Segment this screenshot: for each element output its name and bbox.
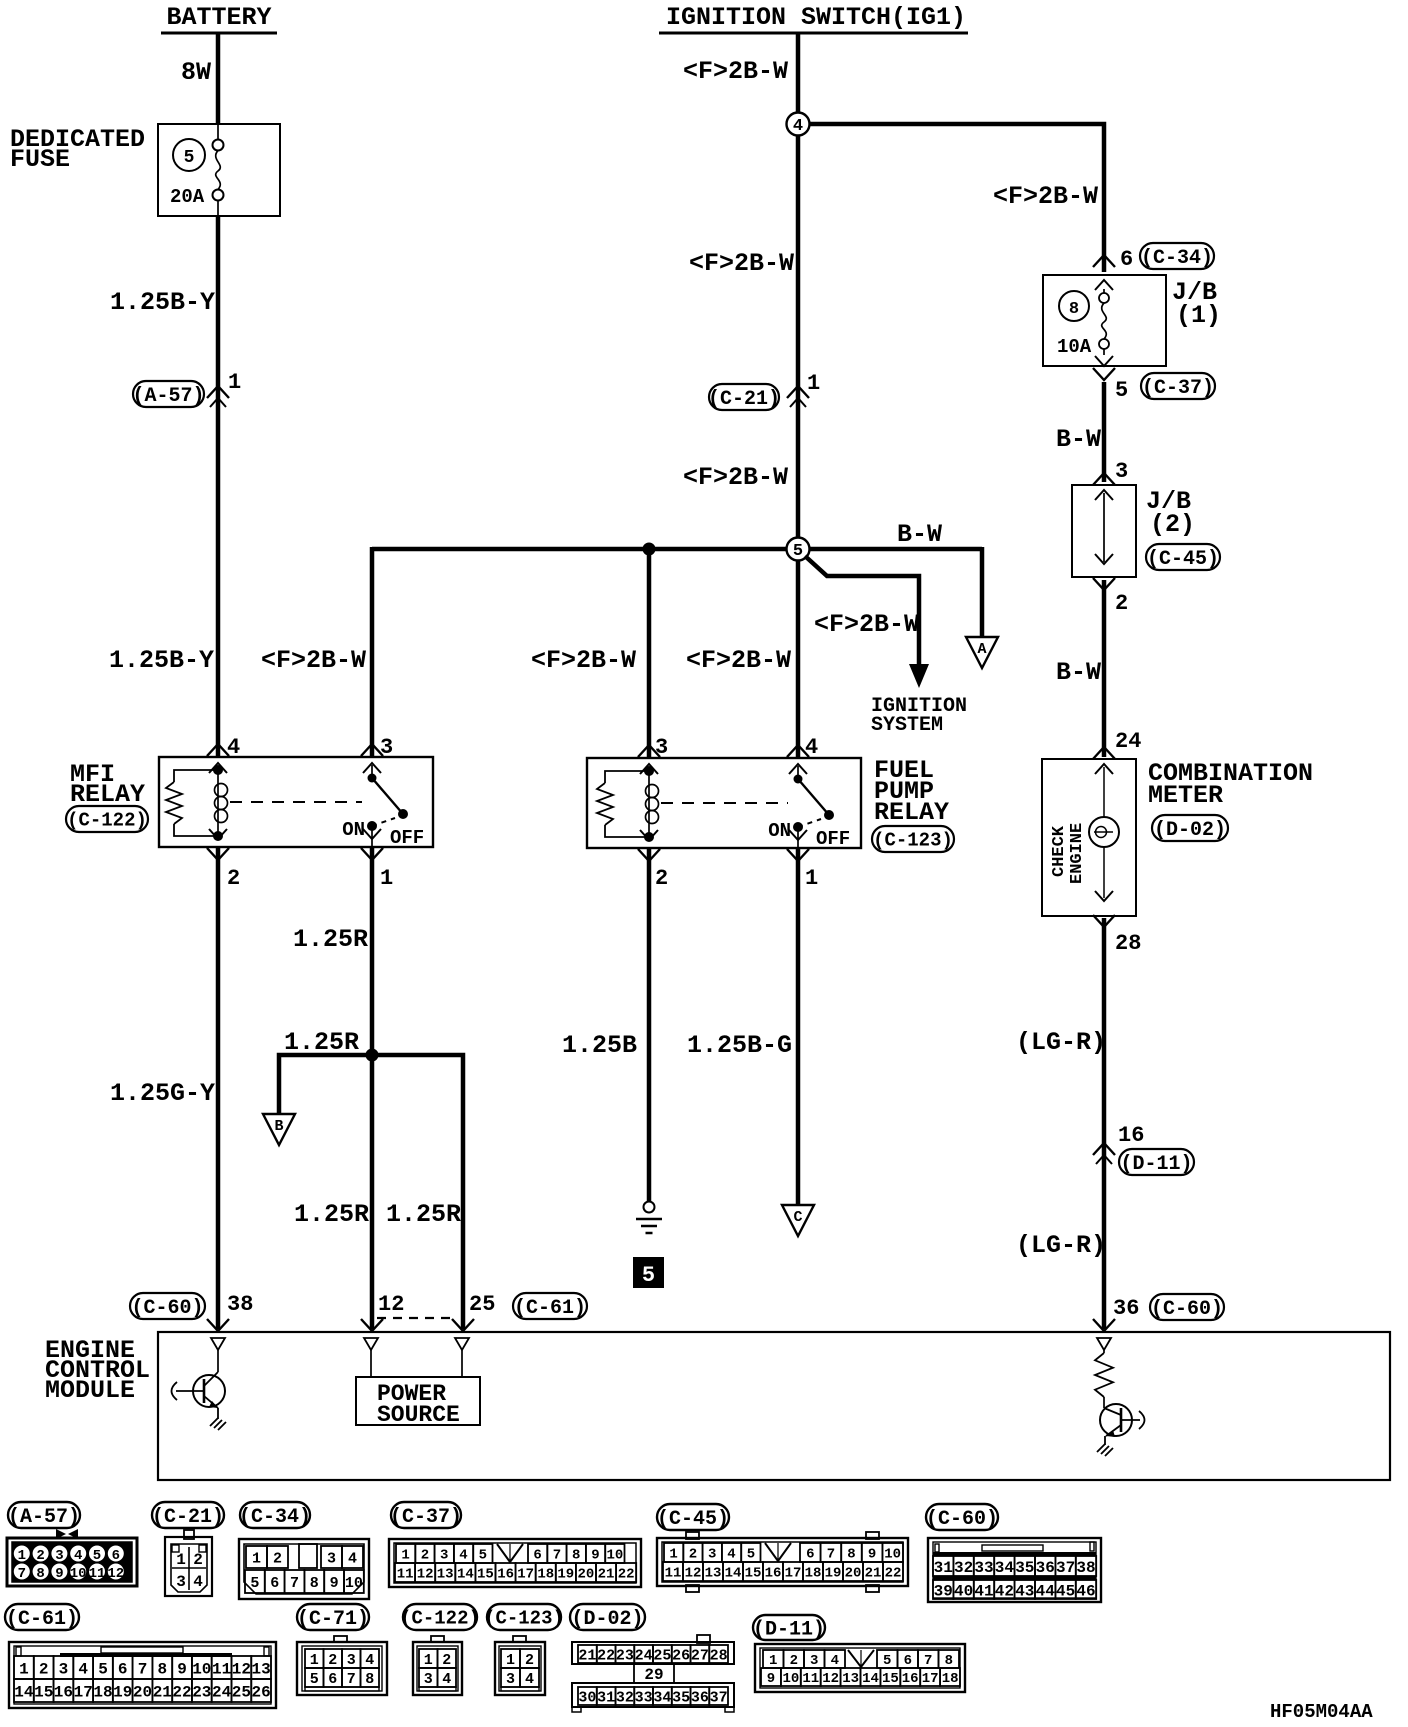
connector C-61 pinout [9,1642,276,1708]
junction to fuel pump relay coil [643,543,656,556]
svg-text:3: 3 [380,735,393,760]
svg-text:3: 3 [59,1660,69,1678]
svg-text:6: 6 [533,1548,541,1564]
wire bus right end down to triangle A [980,547,985,637]
svg-text:5: 5 [184,148,195,168]
svg-text:3: 3 [810,1653,818,1669]
svg-text:<F>2B-W: <F>2B-W [683,57,788,86]
svg-text:METER: METER [1148,781,1223,810]
svg-text:8: 8 [310,1575,319,1592]
fuse number circle 5 [173,139,205,171]
fuse 5 20A box [158,124,280,216]
svg-text:29: 29 [644,1666,663,1684]
svg-text:32: 32 [954,1559,973,1577]
svg-text:1: 1 [769,1653,777,1669]
svg-text:1: 1 [424,1652,433,1669]
connector C-34 capsule [1140,243,1214,269]
connector D-11 label [753,1615,825,1640]
connector D-02 pinout [697,1635,710,1643]
svg-text:22: 22 [172,1683,191,1701]
svg-text:(C-123): (C-123) [484,1607,564,1629]
svg-text:42: 42 [995,1582,1014,1600]
svg-text:24: 24 [1115,729,1141,754]
svg-text:5: 5 [642,1263,655,1288]
svg-text:2: 2 [39,1660,49,1678]
svg-text:43: 43 [1015,1582,1034,1600]
svg-text:5: 5 [310,1671,319,1688]
connector A-57 in-line [133,381,204,407]
connector D-02 capsule [1152,815,1228,841]
svg-text:23: 23 [192,1683,211,1701]
svg-text:(C-61): (C-61) [514,1297,586,1320]
connector C-60 label [926,1504,998,1530]
relay fuel-pump C-123 armature dashed link [661,802,788,804]
svg-text:6: 6 [1120,247,1133,272]
svg-text:18: 18 [537,1567,554,1583]
svg-text:12: 12 [378,1292,404,1317]
svg-text:1: 1 [176,1551,186,1569]
ECM resistor R-right [1103,1350,1105,1353]
connector C-122 capsule [66,806,148,832]
connector C-122 label [403,1604,477,1630]
svg-text:B-W: B-W [1056,425,1101,454]
ground at Q-left [210,1418,226,1430]
svg-text:25: 25 [232,1683,251,1701]
svg-text:31: 31 [597,1689,615,1706]
svg-text:8: 8 [1069,300,1079,319]
svg-text:SYSTEM: SYSTEM [871,714,943,737]
connector A-57 pinout [56,1529,66,1539]
svg-text:3: 3 [176,1573,186,1591]
svg-text:OFF: OFF [816,828,850,850]
node 4 [787,113,810,136]
svg-text:38: 38 [227,1292,253,1317]
connector D-02 label [570,1604,645,1630]
connector C-21 in-line [709,384,779,410]
relay fuel-pump C-123 box [587,758,861,848]
svg-text:7: 7 [347,1671,356,1688]
svg-text:33: 33 [974,1559,993,1577]
svg-text:22: 22 [885,1566,902,1582]
svg-text:(C-34): (C-34) [239,1506,311,1529]
svg-text:19: 19 [825,1566,842,1582]
svg-text:(D-11): (D-11) [753,1618,825,1641]
fuse element [213,140,224,151]
svg-text:21: 21 [153,1683,172,1701]
svg-text:8: 8 [157,1660,167,1678]
svg-text:1: 1 [506,1652,515,1669]
svg-text:39: 39 [934,1582,953,1600]
svg-text:3: 3 [655,735,668,760]
svg-text:7: 7 [924,1653,932,1669]
ECM power source block [370,1350,372,1377]
svg-text:14: 14 [457,1567,474,1583]
connector C-37 label [391,1502,461,1528]
svg-text:35: 35 [1015,1559,1034,1577]
wire J/B(2) to combination meter [1102,580,1107,757]
svg-text:5: 5 [98,1660,108,1678]
svg-text:(C-60): (C-60) [131,1297,203,1320]
svg-text:20: 20 [577,1567,594,1583]
svg-text:1.25B-Y: 1.25B-Y [110,288,215,317]
svg-text:10: 10 [782,1671,799,1687]
junction bar 1.25R [279,1055,463,1329]
svg-text:4: 4 [348,1550,357,1567]
wire battery 8W down to fuse [216,33,221,124]
svg-text:32: 32 [616,1689,634,1706]
svg-text:1.25G-Y: 1.25G-Y [110,1079,215,1108]
ECM pin 25 terminal [455,1338,469,1350]
svg-text:<F>2B-W: <F>2B-W [531,646,636,675]
relay fuel-pump C-123 internal resistor [605,771,649,783]
svg-text:10: 10 [192,1660,211,1678]
svg-text:3: 3 [424,1671,433,1688]
svg-text:12: 12 [107,1566,124,1582]
svg-text:24: 24 [635,1647,653,1664]
svg-text:4: 4 [793,117,803,136]
svg-text:18: 18 [942,1671,959,1687]
connector C-122 pinout [431,1636,444,1642]
svg-text:11: 11 [397,1567,414,1583]
svg-text:4: 4 [193,1573,203,1591]
svg-text:2: 2 [525,1652,534,1669]
svg-text:26: 26 [251,1683,270,1701]
svg-text:7: 7 [18,1566,26,1582]
svg-text:ENGINE: ENGINE [1068,823,1087,884]
svg-text:(D-02): (D-02) [1154,819,1226,842]
svg-text:6: 6 [270,1575,279,1592]
svg-text:13: 13 [705,1566,722,1582]
svg-text:12: 12 [822,1671,839,1687]
svg-text:(A-57): (A-57) [132,385,204,408]
J/B(1) fuse element [1103,289,1105,293]
svg-text:(LG-R): (LG-R) [1016,1231,1106,1260]
svg-text:20: 20 [133,1683,152,1701]
svg-text:4: 4 [525,1671,534,1688]
connector D-11 pinout [755,1644,965,1692]
relay MFI C-122 box [159,757,433,847]
svg-text:IGNITION SWITCH(IG1): IGNITION SWITCH(IG1) [666,3,966,32]
svg-text:1: 1 [310,1652,319,1669]
svg-text:16: 16 [765,1566,782,1582]
svg-text:(D-02): (D-02) [571,1608,643,1631]
connector C-45 label [657,1504,729,1530]
svg-text:4: 4 [227,735,240,760]
svg-text:(1): (1) [1176,301,1221,330]
svg-text:16: 16 [902,1671,919,1687]
connector C-45 pinout [686,1532,699,1539]
svg-text:16: 16 [1118,1123,1144,1148]
svg-text:(C-45): (C-45) [657,1508,729,1531]
svg-text:5: 5 [793,542,803,561]
svg-text:1: 1 [380,866,393,891]
svg-text:10: 10 [884,1547,901,1563]
junction block J/B(1) box [1043,275,1166,366]
svg-text:MODULE: MODULE [45,1376,135,1405]
svg-text:SOURCE: SOURCE [377,1402,460,1428]
svg-text:5: 5 [883,1653,891,1669]
connector C-71 pinout [334,1636,347,1642]
svg-text:8: 8 [365,1671,374,1688]
svg-text:12: 12 [232,1660,251,1678]
svg-text:36: 36 [1113,1296,1139,1321]
svg-text:(C-34): (C-34) [1141,247,1213,270]
svg-text:<F>2B-W: <F>2B-W [993,182,1098,211]
svg-text:3: 3 [347,1652,356,1669]
svg-text:1.25B-Y: 1.25B-Y [109,646,214,675]
connector C-123 capsule [872,826,954,852]
svg-text:15: 15 [34,1683,53,1701]
relay fuel-pump C-123 switch [797,766,799,779]
svg-text:7: 7 [553,1548,561,1564]
relay MFI C-122 coil-side pin arrows [207,744,229,756]
svg-text:1.25B: 1.25B [562,1031,637,1060]
svg-text:37: 37 [710,1689,728,1706]
wire J/B(1) to J/B(2) [1102,382,1107,482]
svg-text:(D-11): (D-11) [1120,1153,1192,1176]
engine control module box [158,1332,1390,1480]
svg-text:11: 11 [212,1660,231,1678]
svg-text:2: 2 [227,866,240,891]
svg-text:4: 4 [727,1547,735,1563]
svg-text:RELAY: RELAY [70,780,145,809]
svg-text:26: 26 [672,1647,690,1664]
svg-text:3: 3 [1115,459,1128,484]
wire bus down to MFI relay pin 3 [370,547,375,756]
svg-text:34: 34 [653,1689,671,1706]
svg-text:3: 3 [327,1550,336,1567]
connector C-60 capsule left [130,1293,205,1319]
svg-text:ON: ON [342,819,365,841]
svg-text:6: 6 [806,1547,814,1563]
connector C-123 label [487,1604,561,1630]
svg-text:19: 19 [113,1683,132,1701]
svg-text:9: 9 [767,1671,775,1687]
connector C-37 pinout [389,1539,641,1587]
svg-text:2: 2 [273,1550,282,1567]
svg-text:(C-45): (C-45) [1147,548,1219,571]
svg-text:21: 21 [865,1566,882,1582]
relay fuel-pump C-123 coil-side pin arrows [638,745,660,757]
svg-text:11: 11 [665,1566,682,1582]
svg-text:1: 1 [228,370,241,395]
svg-text:11: 11 [802,1671,819,1687]
svg-text:15: 15 [882,1671,899,1687]
svg-text:7: 7 [290,1575,299,1592]
svg-text:28: 28 [710,1647,728,1664]
svg-text:9: 9 [591,1548,599,1564]
svg-text:45: 45 [1056,1582,1075,1600]
svg-text:22: 22 [618,1567,635,1583]
connector C-61 label [5,1604,79,1630]
svg-text:13: 13 [842,1671,859,1687]
svg-text:16: 16 [54,1683,73,1701]
svg-text:2: 2 [442,1652,451,1669]
svg-text:(C-21): (C-21) [152,1506,224,1529]
svg-text:28: 28 [1115,931,1141,956]
node 5 [787,538,810,561]
svg-text:14: 14 [862,1671,879,1687]
svg-text:(A-57): (A-57) [8,1506,80,1529]
svg-text:20: 20 [845,1566,862,1582]
svg-text:7: 7 [827,1547,835,1563]
svg-text:(C-123): (C-123) [873,829,953,851]
wire node 4 to J/B(1) branch [809,124,1104,272]
svg-text:2: 2 [655,866,668,891]
svg-text:17: 17 [922,1671,939,1687]
svg-text:(LG-R): (LG-R) [1016,1028,1106,1057]
svg-text:1: 1 [805,866,818,891]
svg-text:<F>2B-W: <F>2B-W [814,610,919,639]
connector C-61 capsule [513,1293,587,1319]
node C triangle [782,1205,814,1236]
svg-text:3: 3 [708,1547,716,1563]
svg-text:19: 19 [557,1567,574,1583]
ECM transistor Q-right [1100,1404,1132,1436]
svg-text:6: 6 [112,1548,120,1564]
svg-text:20A: 20A [170,186,205,208]
wire MFI pin2 down to ECM pin 38 [216,848,221,1329]
svg-text:46: 46 [1076,1582,1095,1600]
combination meter box [1042,759,1136,916]
svg-text:25: 25 [653,1647,671,1664]
relay MFI C-122 internal resistor [174,770,218,782]
svg-text:(C-60): (C-60) [1151,1298,1223,1321]
svg-text:OFF: OFF [390,827,424,849]
svg-text:7: 7 [138,1660,148,1678]
svg-text:A: A [977,641,986,658]
svg-text:(C-21): (C-21) [708,388,780,411]
svg-text:14: 14 [725,1566,742,1582]
svg-text:9: 9 [177,1660,187,1678]
svg-text:17: 17 [517,1567,534,1583]
svg-text:13: 13 [437,1567,454,1583]
svg-text:BATTERY: BATTERY [166,3,271,32]
wire fuse to MFI relay pin 4 [216,216,221,756]
svg-text:B: B [274,1118,283,1135]
ground symbol [644,1202,655,1213]
svg-text:(C-122): (C-122) [67,809,147,831]
svg-text:B-W: B-W [897,520,942,549]
svg-text:1.25R: 1.25R [284,1028,359,1057]
svg-text:10: 10 [70,1566,87,1582]
svg-text:9: 9 [330,1575,339,1592]
svg-text:1.25R: 1.25R [294,1200,369,1229]
svg-text:<F>2B-W: <F>2B-W [261,646,366,675]
svg-text:30: 30 [578,1689,596,1706]
horizontal bus wire at node 5 [372,547,786,552]
svg-text:HF05M04AA: HF05M04AA [1270,1701,1373,1722]
svg-text:<F>2B-W: <F>2B-W [686,646,791,675]
svg-text:31: 31 [934,1559,953,1577]
ECM transistor Q-left [217,1350,219,1372]
connector C-71 label [297,1604,369,1630]
check engine lamp [1103,767,1105,817]
wire MFI pin1 down through junction to ECM pin 12 [370,848,375,1329]
svg-text:1: 1 [18,1548,26,1564]
connector D-11 in-line [1093,1143,1115,1155]
svg-text:(C-37): (C-37) [390,1506,462,1529]
svg-text:12: 12 [417,1567,434,1583]
svg-text:CHECK: CHECK [1050,825,1069,877]
svg-text:41: 41 [974,1582,993,1600]
wire ignition switch down to node 4 [796,33,801,113]
svg-text:1: 1 [669,1547,677,1563]
svg-text:<F>2B-W: <F>2B-W [689,249,794,278]
svg-text:21: 21 [578,1647,596,1664]
svg-text:6: 6 [118,1660,128,1678]
svg-text:1: 1 [807,371,820,396]
svg-text:37: 37 [1056,1559,1075,1577]
connector C-37 capsule [1141,373,1215,399]
svg-text:2: 2 [1115,591,1128,616]
wire junction down to fuel pump relay pin 3 [647,549,652,757]
svg-text:5: 5 [747,1547,755,1563]
svg-text:13: 13 [251,1660,270,1678]
svg-text:24: 24 [212,1683,232,1701]
svg-text:22: 22 [597,1647,615,1664]
svg-text:8W: 8W [181,58,211,87]
wire node 5 down to fuel pump relay pin 4 [796,560,801,757]
svg-text:1.25R: 1.25R [293,925,368,954]
svg-text:16: 16 [497,1567,514,1583]
svg-text:3: 3 [440,1548,448,1564]
ECM pin 36 terminal [1097,1338,1111,1350]
junction block J/B(2) box [1072,485,1136,577]
svg-text:1.25R: 1.25R [386,1200,461,1229]
ECM pin 38 terminal [211,1338,225,1350]
svg-text:4: 4 [78,1660,88,1678]
svg-text:(C-37): (C-37) [1142,377,1214,400]
svg-text:11: 11 [89,1566,106,1582]
svg-text:2: 2 [328,1652,337,1669]
svg-text:18: 18 [93,1683,112,1701]
svg-text:1.25B-G: 1.25B-G [687,1031,792,1060]
svg-text:3: 3 [506,1671,515,1688]
svg-text:38: 38 [1076,1559,1095,1577]
wire node 5 branch to ignition system [805,556,919,666]
ECM pin 12 terminal [364,1338,378,1350]
svg-text:2: 2 [689,1547,697,1563]
svg-text:5: 5 [93,1548,101,1564]
svg-text:4: 4 [74,1548,82,1564]
node A triangle [966,637,998,668]
relay MFI C-122 armature dashed link [230,801,362,803]
svg-text:15: 15 [477,1567,494,1583]
svg-text:15: 15 [745,1566,762,1582]
svg-text:5: 5 [1115,378,1128,403]
wire fuel relay pin2 to ground [647,849,652,1201]
svg-text:8: 8 [847,1547,855,1563]
svg-text:ON: ON [768,820,791,842]
svg-text:4: 4 [459,1548,467,1564]
connector A-57 label [8,1502,80,1528]
connector C-123 pinout [513,1636,526,1642]
arrowhead to ignition system [909,664,929,688]
svg-text:(C-122): (C-122) [400,1607,480,1629]
svg-text:B-W: B-W [1056,658,1101,687]
svg-text:5: 5 [250,1575,259,1592]
svg-text:17: 17 [785,1566,802,1582]
fuse number circle 8 [1059,291,1089,321]
wire node 4 down to C-21 [796,135,801,537]
relay fuel-pump C-123 coil [648,771,650,837]
ground reference square 5 [634,1258,663,1287]
svg-text:25: 25 [469,1292,495,1317]
svg-text:2: 2 [421,1548,429,1564]
svg-text:1: 1 [401,1548,409,1564]
svg-text:(C-71): (C-71) [297,1608,369,1631]
